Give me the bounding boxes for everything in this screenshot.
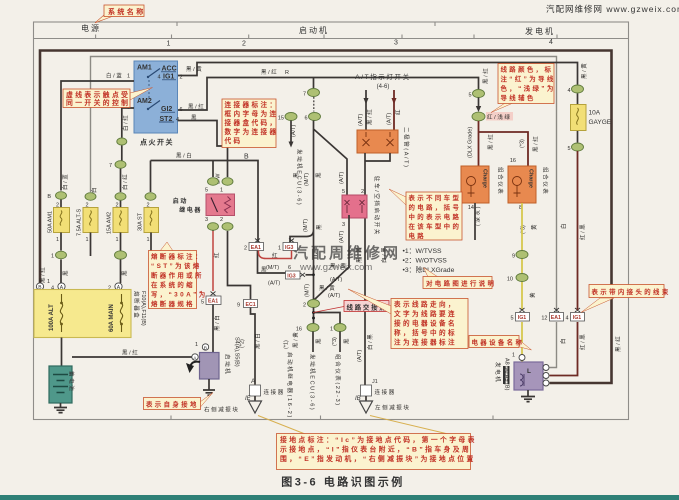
svg-text:黑/白: 黑/白 [213, 314, 221, 331]
svg-text:EC1: EC1 [246, 302, 256, 308]
svg-text:在该车型中的: 在该车型中的 [409, 221, 462, 230]
svg-text:3: 3 [342, 222, 345, 228]
svg-text:注“红”为导线: 注“红”为导线 [501, 74, 556, 83]
svg-text:4: 4 [565, 316, 568, 322]
svg-text:红/黑: 红/黑 [579, 333, 587, 350]
svg-text:2: 2 [56, 203, 59, 209]
svg-text:•2：W/OTVSS: •2：W/OTVSS [403, 258, 448, 265]
svg-text:白: 白 [560, 222, 568, 229]
svg-text:框内字母为连: 框内字母为连 [225, 109, 279, 118]
svg-text:(*2): (*2) [240, 339, 246, 348]
svg-text:4: 4 [158, 75, 161, 81]
svg-text:黑/红: 黑/红 [122, 349, 139, 357]
svg-text:黑/黄: 黑/黄 [355, 246, 363, 263]
svg-text:黑/黄: 黑/黄 [330, 262, 347, 270]
svg-text:5: 5 [342, 189, 345, 195]
svg-text:(A/T): (A/T) [358, 114, 364, 126]
svg-text:(A/T): (A/T) [387, 113, 393, 125]
svg-text:3: 3 [394, 40, 398, 47]
svg-text:(A/T): (A/T) [268, 281, 280, 287]
svg-text:汽配网维修网 www.gzweix.com: 汽配网维修网 www.gzweix.com [546, 4, 679, 14]
svg-text:L: L [527, 368, 531, 375]
svg-text:IG1: IG1 [163, 74, 174, 81]
svg-text:黑: 黑 [122, 269, 129, 276]
svg-text:9: 9 [237, 303, 240, 309]
svg-text:15: 15 [278, 116, 284, 122]
svg-text:1: 1 [330, 327, 333, 333]
svg-text:黄: 黄 [529, 291, 537, 298]
svg-text:黑/红: 黑/红 [614, 335, 622, 352]
svg-text:(M/T): (M/T) [305, 284, 311, 297]
svg-text:(M/T): (M/T) [303, 219, 309, 232]
svg-text:6: 6 [288, 265, 291, 271]
svg-text:10A: 10A [589, 110, 601, 117]
svg-text:黑/红: 黑/红 [188, 103, 205, 111]
svg-text:右侧减振块: 右侧减振块 [204, 406, 240, 414]
svg-text:IG3: IG3 [285, 245, 293, 251]
svg-text:3: 3 [205, 217, 208, 223]
svg-text:对电路图进行说明: 对电路图进行说明 [426, 279, 496, 288]
svg-text:A: A [251, 378, 256, 385]
svg-text:15A AM2: 15A AM2 [107, 212, 113, 234]
svg-text:中的表示电路: 中的表示电路 [409, 212, 462, 221]
svg-text:写，“30A”为: 写，“30A”为 [151, 289, 208, 298]
svg-text:(A/T): (A/T) [339, 231, 345, 243]
svg-text:表示带内接头的线束: 表示带内接头的线束 [591, 287, 671, 296]
svg-text:(*3): (*3) [332, 337, 338, 346]
svg-text:1: 1 [47, 279, 50, 285]
svg-text:黑/红: 黑/红 [261, 68, 278, 76]
svg-text:7: 7 [303, 92, 306, 98]
svg-text:熔断器标注：: 熔断器标注： [151, 251, 204, 260]
svg-text:二极管(A/T): 二极管(A/T) [403, 127, 411, 169]
svg-text:熔断器规格: 熔断器规格 [151, 299, 195, 308]
svg-text:5: 5 [510, 316, 513, 322]
svg-text:1: 1 [116, 237, 119, 243]
svg-text:Charge: Charge [482, 169, 488, 188]
svg-text:EA1: EA1 [551, 315, 561, 321]
svg-text:图3-6 电路识图示例: 图3-6 电路识图示例 [281, 475, 404, 489]
svg-text:黑/黄: 黑/黄 [292, 331, 300, 348]
svg-text:黑/黄: 黑/黄 [580, 62, 588, 79]
svg-text:接地点标注：“Ic”为接地点代码，第一个字母表: 接地点标注：“Ic”为接地点代码，第一个字母表 [280, 435, 477, 444]
svg-text:2: 2 [244, 246, 247, 252]
svg-text:注为连接器标注: 注为连接器标注 [394, 337, 457, 346]
svg-text:红: 红 [394, 108, 402, 115]
svg-text:称，括号中的标: 称，括号中的标 [394, 328, 457, 337]
svg-text:白: 白 [559, 337, 567, 344]
svg-text:黑/黄: 黑/黄 [186, 65, 203, 73]
svg-text:黑/红: 黑/红 [487, 133, 495, 150]
svg-text:(A/T): (A/T) [339, 172, 345, 184]
svg-text:1: 1 [127, 74, 130, 80]
svg-text:黑: 黑 [261, 267, 268, 274]
svg-text:AM1: AM1 [137, 65, 152, 72]
svg-text:左侧减振块: 左侧减振块 [375, 404, 411, 412]
svg-text:(M/T): (M/T) [304, 173, 310, 186]
svg-text:启动机继电器(16-2): 启动机继电器(16-2) [286, 352, 294, 419]
svg-text:IG1: IG1 [518, 315, 526, 321]
svg-text:点火开关: 点火开关 [140, 138, 174, 147]
svg-text:红/浅绿: 红/浅绿 [487, 113, 511, 121]
svg-text:红/黑: 红/黑 [579, 223, 587, 240]
svg-text:ACC: ACC [162, 66, 177, 73]
svg-text:熔断器盒: 熔断器盒 [133, 291, 141, 319]
svg-text:电路: 电路 [409, 231, 427, 240]
svg-text:黑/黄: 黑/黄 [319, 284, 336, 292]
svg-text:J1: J1 [372, 379, 378, 385]
svg-text:(4-6): (4-6) [377, 84, 390, 90]
svg-text:白/蓝: 白/蓝 [61, 173, 69, 190]
svg-text:1: 1 [51, 254, 54, 260]
svg-text:白/黑: 白/黑 [380, 246, 388, 263]
svg-text:白: 白 [90, 186, 98, 193]
svg-text:表示自身接地: 表示自身接地 [145, 400, 199, 409]
svg-text:黑: 黑 [316, 223, 323, 230]
svg-text:2: 2 [116, 203, 119, 209]
svg-text:EA1: EA1 [208, 299, 218, 305]
svg-text:表示不同车型: 表示不同车型 [408, 193, 462, 202]
svg-text:同一开关的控制: 同一开关的控制 [66, 98, 130, 107]
svg-text:100A ALT: 100A ALT [49, 304, 55, 331]
svg-text:黑/红: 黑/红 [482, 67, 490, 84]
svg-text:示接地点，“I”指仪表台附近，“B”指车身及周: 示接地点，“I”指仪表台附近，“B”指车身及周 [280, 444, 471, 453]
svg-text:1: 1 [195, 342, 198, 348]
svg-text:黑: 黑 [344, 337, 351, 344]
svg-text:发电机: 发电机 [494, 362, 502, 383]
svg-text:2: 2 [147, 203, 150, 209]
svg-text:30A ST: 30A ST [138, 212, 144, 231]
svg-text:系统名称: 系统名称 [108, 7, 146, 16]
svg-text:7.5A ALT-S: 7.5A ALT-S [77, 209, 83, 236]
svg-text:白/黑: 白/黑 [366, 333, 374, 350]
svg-text:2: 2 [361, 189, 364, 195]
svg-text:2: 2 [86, 203, 89, 209]
svg-text:14: 14 [468, 205, 474, 211]
svg-text:A8 (A) A9 (B): A8 (A) A9 (B) [504, 358, 510, 391]
svg-text:1: 1 [147, 237, 150, 243]
svg-text:导线辅色: 导线辅色 [501, 93, 536, 102]
svg-text:R: R [285, 70, 289, 76]
svg-text:接的电器设备名: 接的电器设备名 [394, 318, 457, 327]
svg-text:白/红: 白/红 [121, 173, 129, 190]
svg-text:数字为连接器: 数字为连接器 [225, 127, 279, 136]
svg-text:6: 6 [304, 116, 307, 122]
svg-text:2: 2 [220, 217, 223, 223]
svg-text:(*1): (*1) [284, 340, 290, 349]
svg-text:组合仪表(22-3): 组合仪表(22-3) [334, 354, 342, 407]
svg-text:IB: IB [355, 396, 361, 402]
svg-text:4: 4 [567, 88, 570, 94]
svg-text:B: B [47, 194, 51, 200]
svg-text:黑/白: 黑/白 [176, 152, 193, 160]
svg-text:黑/红: 黑/红 [532, 135, 540, 152]
svg-text:表示线路走向，: 表示线路走向， [394, 299, 457, 308]
svg-text:启动: 启动 [173, 197, 188, 205]
svg-text:黑/红: 黑/红 [39, 266, 47, 283]
svg-text:白/蓝: 白/蓝 [106, 72, 123, 80]
svg-text:红: 红 [213, 251, 221, 258]
svg-text:线路颜色，标: 线路颜色，标 [501, 64, 554, 73]
svg-text:9: 9 [512, 254, 515, 260]
svg-text:(A/T): (A/T) [328, 293, 340, 299]
svg-text:6: 6 [180, 107, 183, 113]
svg-text:(A/T): (A/T) [330, 277, 342, 283]
svg-text:1: 1 [86, 237, 89, 243]
svg-text:电源: 电源 [81, 23, 101, 33]
svg-text:EA1: EA1 [251, 245, 261, 251]
svg-text:1: 1 [220, 188, 223, 194]
svg-text:的电路，括号: 的电路，括号 [409, 202, 462, 211]
svg-text:B: B [244, 154, 249, 161]
svg-text:色，“浅绿”为: 色，“浅绿”为 [501, 83, 556, 92]
svg-text:黑: 黑 [63, 269, 70, 276]
svg-text:5: 5 [205, 188, 208, 194]
svg-text:代码: 代码 [224, 136, 243, 145]
svg-text:GAYGE: GAYGE [589, 119, 612, 126]
svg-text:5: 5 [468, 93, 471, 99]
svg-text:蓄电池: 蓄电池 [68, 371, 76, 392]
svg-text:1: 1 [167, 41, 171, 48]
svg-text:(A/T): (A/T) [291, 125, 297, 137]
svg-text:“ST”为该熔: “ST”为该熔 [151, 261, 202, 270]
svg-text:虚线表示触点受: 虚线表示触点受 [66, 90, 130, 99]
svg-text:5: 5 [201, 300, 204, 306]
svg-text:AM2: AM2 [137, 98, 152, 105]
svg-text:1: 1 [278, 246, 281, 252]
svg-text:继电器: 继电器 [179, 206, 202, 214]
svg-text:驻车/空挡启动开关: 驻车/空挡启动开关 [373, 176, 381, 236]
svg-text:2: 2 [180, 75, 183, 81]
svg-text:IE: IE [245, 396, 252, 402]
svg-text:B: B [204, 345, 207, 351]
svg-text:16: 16 [510, 158, 516, 164]
svg-text:50A AM1: 50A AM1 [48, 211, 54, 233]
svg-text:在系统的缩: 在系统的缩 [151, 280, 195, 289]
svg-text:黄: 黄 [530, 223, 538, 230]
svg-text:10: 10 [507, 277, 513, 283]
svg-text:5: 5 [567, 146, 570, 152]
svg-text:红: 红 [272, 252, 279, 260]
svg-text:黑: 黑 [316, 337, 323, 344]
svg-text:文字为线路要连: 文字为线路要连 [394, 309, 457, 318]
svg-text:12: 12 [541, 316, 547, 322]
svg-text:F10(A),F11(B): F10(A),F11(B) [140, 291, 146, 326]
svg-text:7: 7 [109, 163, 112, 169]
svg-text:Charge: Charge [528, 169, 534, 188]
svg-text:组合仪表: 组合仪表 [497, 167, 505, 195]
svg-text:IG1: IG1 [573, 315, 581, 321]
svg-text:发动机ECU(3-6): 发动机ECU(3-6) [296, 149, 304, 206]
svg-text:连接器: 连接器 [264, 388, 285, 396]
svg-text:(DLX Grade): (DLX Grade) [468, 127, 474, 158]
svg-text:组合仪表: 组合仪表 [542, 167, 550, 195]
svg-text:围，“E”指发动机，“右侧减振块”为接地点位置: 围，“E”指发动机，“右侧减振块”为接地点位置 [280, 454, 476, 463]
svg-text:黑/红: 黑/红 [366, 108, 374, 125]
svg-text:2: 2 [242, 41, 246, 48]
svg-text:接器盒代码，: 接器盒代码， [225, 118, 279, 127]
svg-text:A/T指示灯开关: A/T指示灯开关 [355, 72, 410, 81]
svg-text:(A/T): (A/T) [357, 350, 363, 362]
svg-text:IG3: IG3 [287, 273, 295, 279]
svg-text:连接器: 连接器 [375, 388, 396, 396]
svg-text:•1：W/TVSS: •1：W/TVSS [403, 248, 442, 255]
svg-text:黑: 黑 [316, 171, 323, 178]
svg-text:白/红: 白/红 [122, 114, 130, 131]
svg-text:断器作用或所: 断器作用或所 [151, 270, 204, 279]
svg-text:(*3): (*3) [520, 139, 526, 148]
svg-text:电器设备名称: 电器设备名称 [472, 338, 525, 347]
svg-text:60A MAIN: 60A MAIN [109, 304, 115, 332]
svg-text:2: 2 [303, 303, 306, 309]
svg-text:连接器标注：: 连接器标注： [225, 100, 279, 109]
svg-text:启动机: 启动机 [299, 25, 329, 35]
svg-text:1: 1 [56, 237, 59, 243]
svg-text:4: 4 [549, 39, 553, 46]
svg-text:1: 1 [512, 353, 515, 359]
svg-text:黑/白: 黑/白 [254, 332, 262, 349]
svg-text:启动机: 启动机 [224, 354, 232, 375]
svg-text:发动机ECU(3-6): 发动机ECU(3-6) [309, 354, 317, 411]
svg-text:发电机: 发电机 [525, 26, 555, 36]
